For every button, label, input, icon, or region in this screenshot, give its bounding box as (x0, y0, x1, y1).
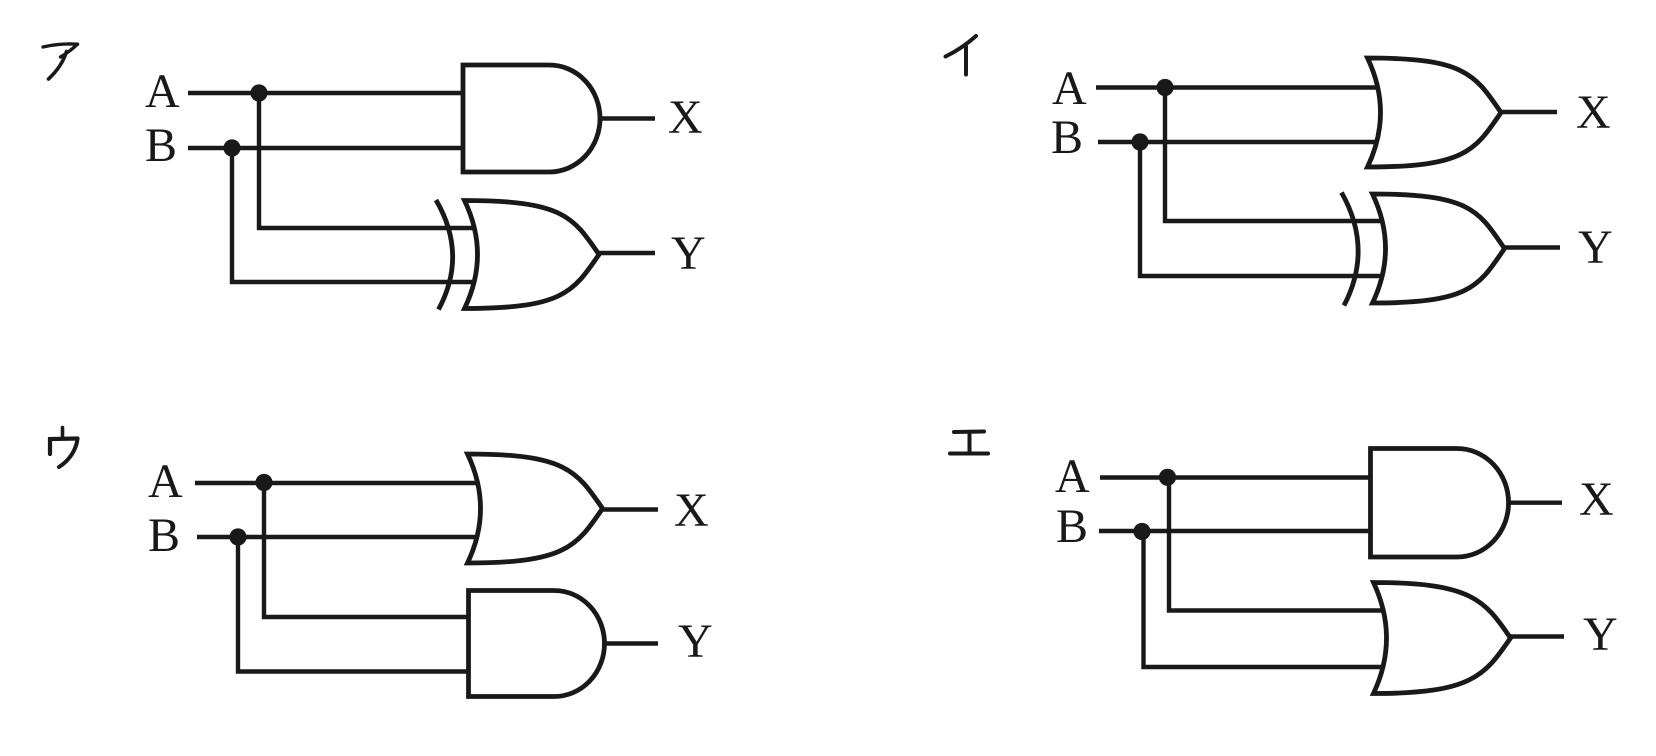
svg-text:B: B (148, 509, 180, 562)
svg-text:A: A (148, 455, 183, 508)
svg-text:X: X (668, 91, 703, 144)
svg-text:B: B (1051, 111, 1083, 164)
svg-text:X: X (1576, 86, 1611, 139)
svg-text:X: X (674, 484, 709, 537)
svg-text:Y: Y (1578, 221, 1613, 274)
svg-text:Y: Y (1583, 608, 1618, 661)
svg-text:Y: Y (678, 615, 713, 668)
svg-text:X: X (1579, 473, 1614, 526)
svg-text:A: A (1052, 62, 1087, 115)
svg-text:B: B (145, 119, 177, 172)
svg-text:A: A (1055, 450, 1090, 503)
svg-text:A: A (145, 65, 180, 118)
svg-text:Y: Y (671, 227, 706, 280)
svg-text:B: B (1056, 500, 1088, 553)
